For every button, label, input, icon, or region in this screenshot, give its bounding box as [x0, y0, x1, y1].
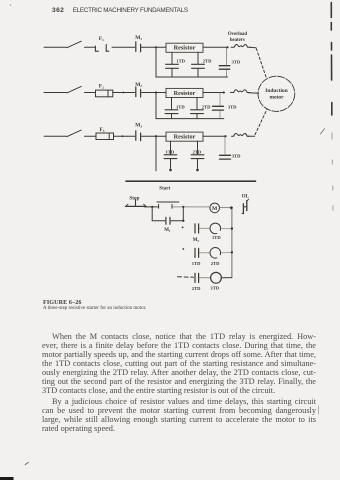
wire R2 to node	[203, 92, 224, 94]
svg-text:2TD: 2TD	[211, 261, 220, 266]
node rung3 right tap	[224, 135, 226, 137]
wire rung2 bottom rail	[156, 118, 224, 120]
page header	[52, 7, 188, 14]
contact 3TD rung3 (bypass leg)	[220, 136, 231, 159]
wire stop to start	[144, 206, 158, 208]
body paragraph 1	[42, 332, 316, 395]
wire switch to fuse F1	[85, 46, 96, 48]
svg-text:Overload: Overload	[228, 32, 248, 37]
resistor R3 box	[166, 132, 203, 141]
edge speck diagonal	[320, 129, 324, 134]
svg-text:OL: OL	[242, 195, 250, 200]
contact 1TD rung2 (tap leg)	[165, 98, 178, 119]
svg-text:M: M	[212, 206, 218, 212]
contact 2TD aux (row 4)	[195, 273, 199, 282]
svg-text:F1: F1	[99, 36, 104, 42]
overload contact OL	[242, 199, 249, 213]
node start-branch left	[151, 206, 153, 208]
wire coil 2TD to rail	[221, 251, 232, 253]
disconnect switch S1 blade	[67, 41, 81, 48]
svg-text:1TD: 1TD	[176, 59, 185, 64]
wire R1 to node	[203, 46, 228, 48]
coil 2TD	[210, 248, 221, 259]
svg-text:2TD: 2TD	[203, 59, 212, 64]
svg-text:2TD: 2TD	[193, 149, 202, 154]
overload heater OL3	[232, 133, 250, 136]
bottom-left speck	[25, 462, 28, 464]
pushbutton Stop (NC)	[125, 200, 146, 207]
wire row3 contact to coil 2TD	[199, 252, 210, 254]
wire coil 3TD to rail	[221, 277, 232, 279]
svg-text:2TD: 2TD	[192, 286, 201, 291]
contact 2TD rung2 (tap leg)	[191, 98, 204, 119]
node start-branch right	[182, 206, 184, 208]
wire L3 input	[44, 135, 67, 137]
contact M1 seal-in	[166, 217, 170, 224]
svg-text:3TD: 3TD	[232, 59, 241, 64]
svg-text:Stop: Stop	[129, 195, 139, 201]
svg-text:Resistor: Resistor	[174, 134, 196, 141]
svg-text:motor: motor	[269, 95, 284, 101]
wire F3 to M3	[114, 135, 135, 137]
wire coil 1TD to rail	[221, 228, 232, 230]
wire switch to fuse F2	[85, 92, 96, 94]
wire F2 to M2	[113, 92, 135, 94]
contact M2 aux (row 2)	[195, 224, 199, 233]
node rung1 left tap	[155, 46, 157, 48]
contact M1	[136, 42, 141, 52]
contact 3TD rung1 (bypass leg)	[219, 47, 230, 77]
wire row4 contact to coil 3TD	[199, 277, 210, 279]
svg-text:M3: M3	[135, 122, 142, 128]
svg-text:M2: M2	[193, 238, 200, 243]
coil 3TD	[211, 272, 222, 283]
wire R3 to node	[203, 135, 226, 137]
node rung3 left tap	[155, 135, 157, 137]
overload heater OL1	[231, 45, 251, 48]
svg-text:M2: M2	[135, 82, 142, 88]
coil 1TD	[210, 223, 221, 234]
svg-text:1TD: 1TD	[166, 149, 175, 154]
overload heater OL2	[231, 90, 250, 93]
pushbutton Start (NO)	[157, 202, 179, 208]
bottom-left scanner mark	[0, 477, 14, 480]
resistor R1 box	[166, 43, 203, 52]
node row2 left dot	[182, 227, 184, 229]
svg-text:2TD: 2TD	[202, 104, 211, 109]
contact 1TD rung1 (tap leg)	[166, 52, 179, 77]
svg-text:Resistor: Resistor	[174, 90, 196, 97]
wire rung2 to motor	[249, 92, 259, 95]
wire rung3 to motor (dashed)	[248, 110, 267, 137]
svg-text:F3: F3	[100, 127, 105, 133]
node seal-in right junction	[182, 220, 184, 222]
node rung1 right tap	[226, 46, 228, 48]
wire rung1 bottom rail	[156, 76, 228, 78]
contact 2TD rung3 (tap leg)	[191, 141, 204, 170]
wire rung3 left tap down	[155, 136, 157, 171]
wire M1 seal-in branch	[152, 207, 183, 221]
coil M	[210, 203, 220, 213]
svg-text:3TD: 3TD	[210, 285, 219, 290]
contact M2	[136, 87, 141, 97]
resistor R2 box	[166, 88, 203, 97]
node rung3 leg2 terminal	[196, 169, 199, 172]
contact 1TD rung3 (tap leg)	[164, 141, 177, 170]
node fuse-M2 wire mark	[123, 92, 125, 94]
wire row2 contact to coil 1TD	[199, 227, 210, 229]
wire coil M to OL	[220, 206, 231, 208]
disconnect switch S2 blade	[67, 86, 81, 93]
svg-text:M1: M1	[135, 35, 142, 41]
contact 1TD aux (row 3)	[195, 248, 199, 257]
svg-text:heaters: heaters	[230, 38, 245, 43]
svg-text:M1: M1	[164, 228, 171, 233]
wire right return rail	[231, 208, 233, 278]
svg-text:Induction: Induction	[265, 88, 287, 94]
wire row4 left dashes	[178, 276, 194, 278]
svg-text:3TD: 3TD	[232, 153, 241, 158]
wire M1 to resistor R1	[142, 46, 166, 48]
wire start to coil M	[172, 206, 209, 208]
wire rung1 left tap down	[155, 47, 157, 77]
wire rung2 left tap down	[155, 93, 157, 119]
contact M3	[136, 131, 141, 141]
figure caption	[43, 301, 146, 313]
node rung2 left tap	[155, 91, 157, 93]
wire F1 to M1	[112, 46, 135, 48]
node rung2 right tap	[223, 91, 225, 93]
wire M2 to resistor R2	[142, 92, 166, 94]
facing page edge dashes	[330, 3, 333, 116]
svg-text:1TD: 1TD	[212, 235, 221, 240]
contact 3TD rung2 (bypass leg)	[213, 93, 224, 119]
wire control bus	[126, 180, 256, 182]
node row3 left dot	[182, 248, 184, 250]
wire L2 input	[44, 92, 67, 94]
top-left speck	[10, 4, 12, 6]
fuse F2	[96, 90, 113, 97]
svg-text:F2: F2	[99, 84, 104, 90]
node rung3 leg1 terminal	[169, 169, 172, 172]
induction motor M	[258, 76, 295, 111]
svg-text:Start: Start	[159, 186, 170, 191]
fuse F1	[95, 45, 108, 52]
node rail row3	[231, 251, 233, 253]
body paragraph 2	[42, 397, 316, 433]
node fuse-M3 wire mark	[122, 135, 124, 137]
svg-text:3TD: 3TD	[228, 105, 237, 110]
disconnect switch S3 blade	[67, 130, 81, 137]
svg-text:1TD: 1TD	[176, 104, 185, 109]
contact 2TD rung1 (tap leg)	[192, 52, 205, 77]
wire rung1 to motor (dashed)	[250, 47, 267, 78]
node right rail top	[230, 206, 233, 209]
svg-text:Resistor: Resistor	[174, 45, 196, 52]
wire M3 to resistor R3	[142, 135, 166, 137]
svg-text:1TD: 1TD	[192, 261, 201, 266]
facing page edge faint dots	[332, 133, 333, 210]
wire L1 input	[44, 46, 67, 48]
fuse F3	[96, 133, 114, 140]
wire switch to fuse F3	[85, 135, 97, 137]
faint margin tick	[317, 406, 319, 414]
node rail row2	[231, 227, 233, 229]
